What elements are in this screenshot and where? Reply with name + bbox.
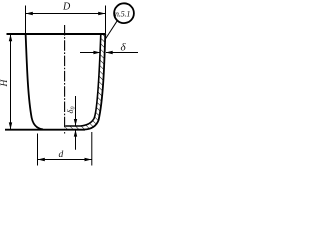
dimension d extension line right (91, 132, 93, 166)
d arrow right (85, 158, 92, 161)
callout circle п.5.1 (114, 3, 134, 23)
crucible bottom outer line (extended left as H extension) (5, 129, 85, 131)
dimension D line (26, 13, 106, 15)
callout leader line (105, 21, 117, 39)
crucible outer wall left (26, 34, 43, 130)
D arrow right (98, 12, 105, 15)
crucible inner wall (section boundary, right) (65, 34, 101, 126)
D arrow left (26, 12, 33, 15)
crucible outer wall right (85, 34, 106, 130)
svg-text:H: H (0, 79, 10, 88)
centerline (dash-dot axis) (64, 25, 66, 134)
dimension delta: left arrow (80, 52, 100, 54)
dimension H line (10, 34, 12, 130)
dimension delta0: upper arrow line (75, 96, 77, 126)
rim top line (extended left as H extension) (7, 33, 106, 35)
dimension delta: right arrow (106, 52, 138, 54)
dimension D extension line left (25, 6, 27, 34)
svg-text:δ: δ (121, 41, 127, 53)
H arrow top (9, 34, 12, 41)
dimension d line (38, 159, 92, 161)
svg-text:п.5.1: п.5.1 (115, 10, 130, 19)
dimension delta0: lower arrow line (75, 130, 77, 150)
d arrow left (38, 158, 45, 161)
svg-text:D: D (62, 2, 71, 13)
svg-text:d: d (59, 150, 64, 160)
section region (right wall + bottom strip) with hatching (65, 34, 105, 130)
dimension D extension line right (105, 6, 107, 34)
dimension d extension line left (37, 134, 39, 166)
H arrow bottom (9, 122, 12, 129)
